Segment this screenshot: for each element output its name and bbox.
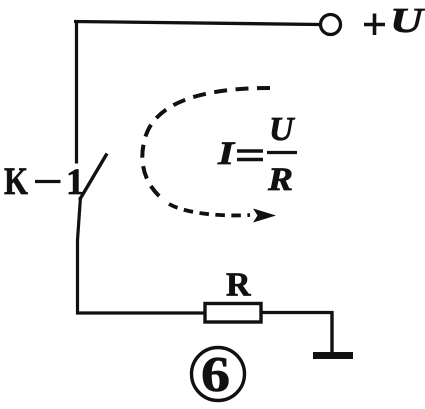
svg-text:K: K [4, 160, 29, 203]
dash of K-1 label [35, 180, 61, 183]
svg-text:R: R [267, 162, 293, 198]
switch K-1 blade [80, 154, 108, 201]
wire ground drop vertical [330, 311, 333, 353]
resistor R body [205, 304, 261, 323]
label plus of +U supply [364, 14, 385, 36]
wire bottom horizontal left (corner to resistor) [76, 311, 206, 314]
wire top horizontal (+U feed) [74, 22, 320, 25]
terminal +U (open circle) [321, 15, 341, 35]
current loop dashed arc lower [169, 204, 250, 215]
equals sign [237, 151, 263, 160]
wire left vertical upper (top corner to switch) [75, 21, 78, 164]
fraction bar [267, 151, 297, 154]
current arrowhead [253, 209, 276, 223]
wire bottom horizontal right (resistor to ground drop) [261, 311, 334, 314]
ground [313, 352, 353, 359]
svg-text:U: U [269, 111, 296, 148]
svg-text:I: I [217, 136, 236, 172]
svg-text:U: U [390, 1, 425, 40]
wire left vertical lower (switch to bottom corner) [78, 197, 81, 315]
svg-text:R: R [226, 267, 251, 304]
current loop dashed arc upper [142, 88, 270, 201]
svg-text:1: 1 [66, 162, 85, 203]
svg-text:6: 6 [201, 346, 230, 402]
figure number circle [192, 348, 245, 401]
